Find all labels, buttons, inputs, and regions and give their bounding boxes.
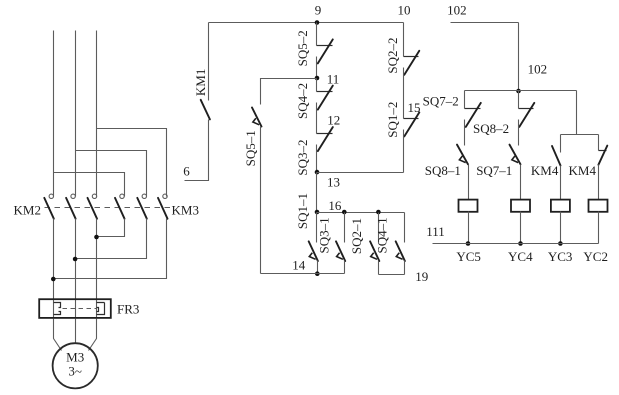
contact KM4 (NO) blade [552, 146, 561, 166]
thermal relay FR3 dashed link [63, 308, 97, 310]
wire phase L2 vertical [75, 31, 77, 197]
wire 102 vertical [518, 23, 520, 91]
contact SQ1-1 (NO limit) [309, 213, 318, 274]
node 13 junction [315, 170, 320, 175]
wire rail node16 [317, 212, 405, 214]
contactor KM2 mechanical dashed link [45, 207, 173, 209]
node 16 junction c [376, 210, 381, 215]
contact SQ5-2 (NC) [317, 39, 333, 78]
thermal relay FR3 heater element right [97, 303, 105, 315]
wire KM4 nc branch upper [598, 135, 600, 151]
svg-text:SQ4–1: SQ4–1 [375, 217, 390, 253]
svg-text:SQ3–1: SQ3–1 [317, 217, 332, 253]
svg-text:SQ8–1: SQ8–1 [425, 163, 461, 178]
junction crossover on L1 [51, 277, 56, 282]
svg-text:YC5: YC5 [456, 249, 481, 264]
svg-text:SQ7–2: SQ7–2 [423, 93, 459, 108]
node 14 junction [315, 271, 320, 276]
coil YC4 [511, 200, 530, 212]
wire phase L1 below KM2 to FR3 [53, 219, 55, 319]
wire rail 102 [465, 90, 577, 92]
wire rail 111 [433, 243, 599, 245]
wire phase L2 below KM2 to FR3 [75, 219, 77, 319]
contactor KM3 contact pole 1 [115, 194, 125, 219]
wire KM1 lower to node 6 [185, 120, 209, 181]
svg-text:111: 111 [426, 224, 445, 239]
wire KM3 pole1 crossover to L3 [97, 219, 125, 237]
contact SQ2-2 (NC) [404, 51, 420, 119]
contact SQ8-2 (NC) [519, 103, 535, 146]
contactor KM2 contact pole 2 [66, 194, 76, 219]
wire SQ7-2 branch upper [464, 91, 466, 109]
wire KM3 pole3 crossover to L1 [54, 219, 167, 279]
wire YC3 to rail 111 [560, 212, 562, 244]
wire FR3 to motor left [54, 319, 62, 351]
svg-text:KM2: KM2 [14, 203, 41, 218]
contact SQ3-2 (NC) [317, 127, 333, 172]
svg-text:KM4: KM4 [569, 163, 597, 178]
node YC4 junction [518, 241, 523, 246]
contact SQ5-1 (NO limit) [252, 108, 262, 274]
wire YC2 to rail 111 [598, 212, 600, 244]
coil YC2 [589, 200, 608, 212]
wire YC5 to rail 111 [468, 212, 470, 244]
wire branch L2 to KM3 contact 2 [76, 151, 147, 197]
wire node13 to node16 [316, 173, 318, 213]
thermal relay FR3 box [39, 299, 111, 318]
svg-text:KM4: KM4 [531, 163, 559, 178]
contact KM4 (NC) [598, 146, 607, 200]
contactor KM2 contact pole 3 [88, 194, 98, 219]
wire left rail node9 to SQ5-2 [316, 23, 318, 46]
wire top rail node9 [209, 22, 404, 24]
wire KM4 no lower [560, 166, 562, 200]
svg-text:KM1: KM1 [193, 69, 208, 96]
wire node11 to SQ4-2 [316, 79, 318, 92]
junction crossover on L2 [73, 257, 78, 262]
wire YC4 to rail 111 [520, 212, 522, 244]
svg-text:10: 10 [398, 3, 411, 18]
wire KM4 stem [576, 91, 578, 135]
contactor KM2 contact pole 1 [44, 194, 54, 219]
svg-text:FR3: FR3 [117, 302, 139, 317]
svg-text:YC4: YC4 [508, 249, 533, 264]
wire SQ5-1 branch upper [261, 79, 317, 105]
svg-text:YC3: YC3 [548, 249, 573, 264]
wire SQ8-2 branch upper [518, 91, 520, 109]
wire KM4 no branch upper [560, 135, 562, 153]
node 102 junction [516, 89, 521, 94]
contact SQ4-2 (NC) [317, 86, 333, 134]
svg-text:YC2: YC2 [583, 249, 608, 264]
wire FR3 to motor right [89, 319, 97, 351]
svg-text:KM3: KM3 [172, 203, 199, 218]
wire KM3 pole2 crossover to L2 [76, 219, 147, 259]
node 11 junction [315, 76, 320, 81]
contactor KM3 contact pole 2 [137, 194, 147, 219]
wire branch L1 to KM3 contact 1 [54, 173, 125, 197]
contact SQ4-1 (NO limit) [396, 213, 405, 275]
svg-text:SQ1–1: SQ1–1 [295, 193, 310, 229]
svg-text:3~: 3~ [68, 363, 82, 378]
contact KM1 (NO) blade [201, 100, 210, 120]
thermal relay FR3 heater element left [54, 303, 61, 315]
svg-text:SQ7–1: SQ7–1 [476, 163, 512, 178]
svg-text:102: 102 [447, 2, 467, 17]
svg-text:SQ5–1: SQ5–1 [243, 130, 258, 166]
wire node 102 stub [451, 22, 519, 24]
contactor KM3 contact pole 3 [158, 194, 168, 219]
svg-text:SQ5–2: SQ5–2 [295, 30, 310, 66]
svg-text:19: 19 [415, 269, 428, 284]
contact SQ7-2 (NC) [465, 103, 481, 146]
svg-text:SQ1–2: SQ1–2 [385, 102, 400, 138]
wire right rail upper [403, 23, 405, 57]
contact SQ1-2 (NC) [404, 112, 420, 172]
junction crossover on L3 [94, 235, 99, 240]
svg-text:102: 102 [528, 62, 548, 77]
svg-text:SQ3–2: SQ3–2 [295, 140, 310, 176]
wire branch L3 to KM3 contact 3 [97, 129, 167, 197]
contact SQ8-1 (NO limit) [457, 145, 469, 200]
svg-text:12: 12 [327, 113, 340, 128]
node 9 junction [315, 20, 320, 25]
motor M3 circle [53, 343, 98, 388]
wire KM1 upper [208, 23, 210, 101]
node YC5 junction [466, 241, 471, 246]
wire KM4 tee bar [561, 134, 599, 136]
svg-text:13: 13 [327, 175, 340, 190]
svg-text:11: 11 [327, 72, 340, 87]
svg-text:SQ2–1: SQ2–1 [349, 218, 364, 254]
wire phase L3 vertical [96, 31, 98, 197]
wire FR3 to motor middle [75, 319, 77, 344]
wire rail node13 [317, 172, 404, 174]
node YC3 junction [558, 241, 563, 246]
wire rail node14 [261, 273, 345, 275]
coil YC5 [459, 200, 478, 212]
svg-text:SQ4–2: SQ4–2 [295, 83, 310, 119]
wire phase L1 vertical [53, 31, 55, 197]
svg-text:9: 9 [315, 2, 322, 17]
coil YC3 [551, 200, 570, 212]
contact SQ7-1 (NO limit) [510, 145, 521, 200]
svg-text:6: 6 [183, 164, 190, 179]
wire phase L3 below KM2 to FR3 [96, 219, 98, 319]
svg-text:SQ8–2: SQ8–2 [473, 121, 509, 136]
svg-text:M3: M3 [66, 350, 84, 365]
contact SQ2-1 (NO limit) [370, 213, 379, 275]
node 16 junction [315, 210, 320, 215]
contact SQ3-1 (NO limit) [336, 213, 345, 274]
svg-text:16: 16 [328, 198, 342, 213]
svg-text:SQ2–2: SQ2–2 [385, 37, 400, 73]
node 16 junction b [342, 210, 347, 215]
svg-text:14: 14 [292, 257, 306, 272]
wire rail node19 [379, 274, 405, 276]
